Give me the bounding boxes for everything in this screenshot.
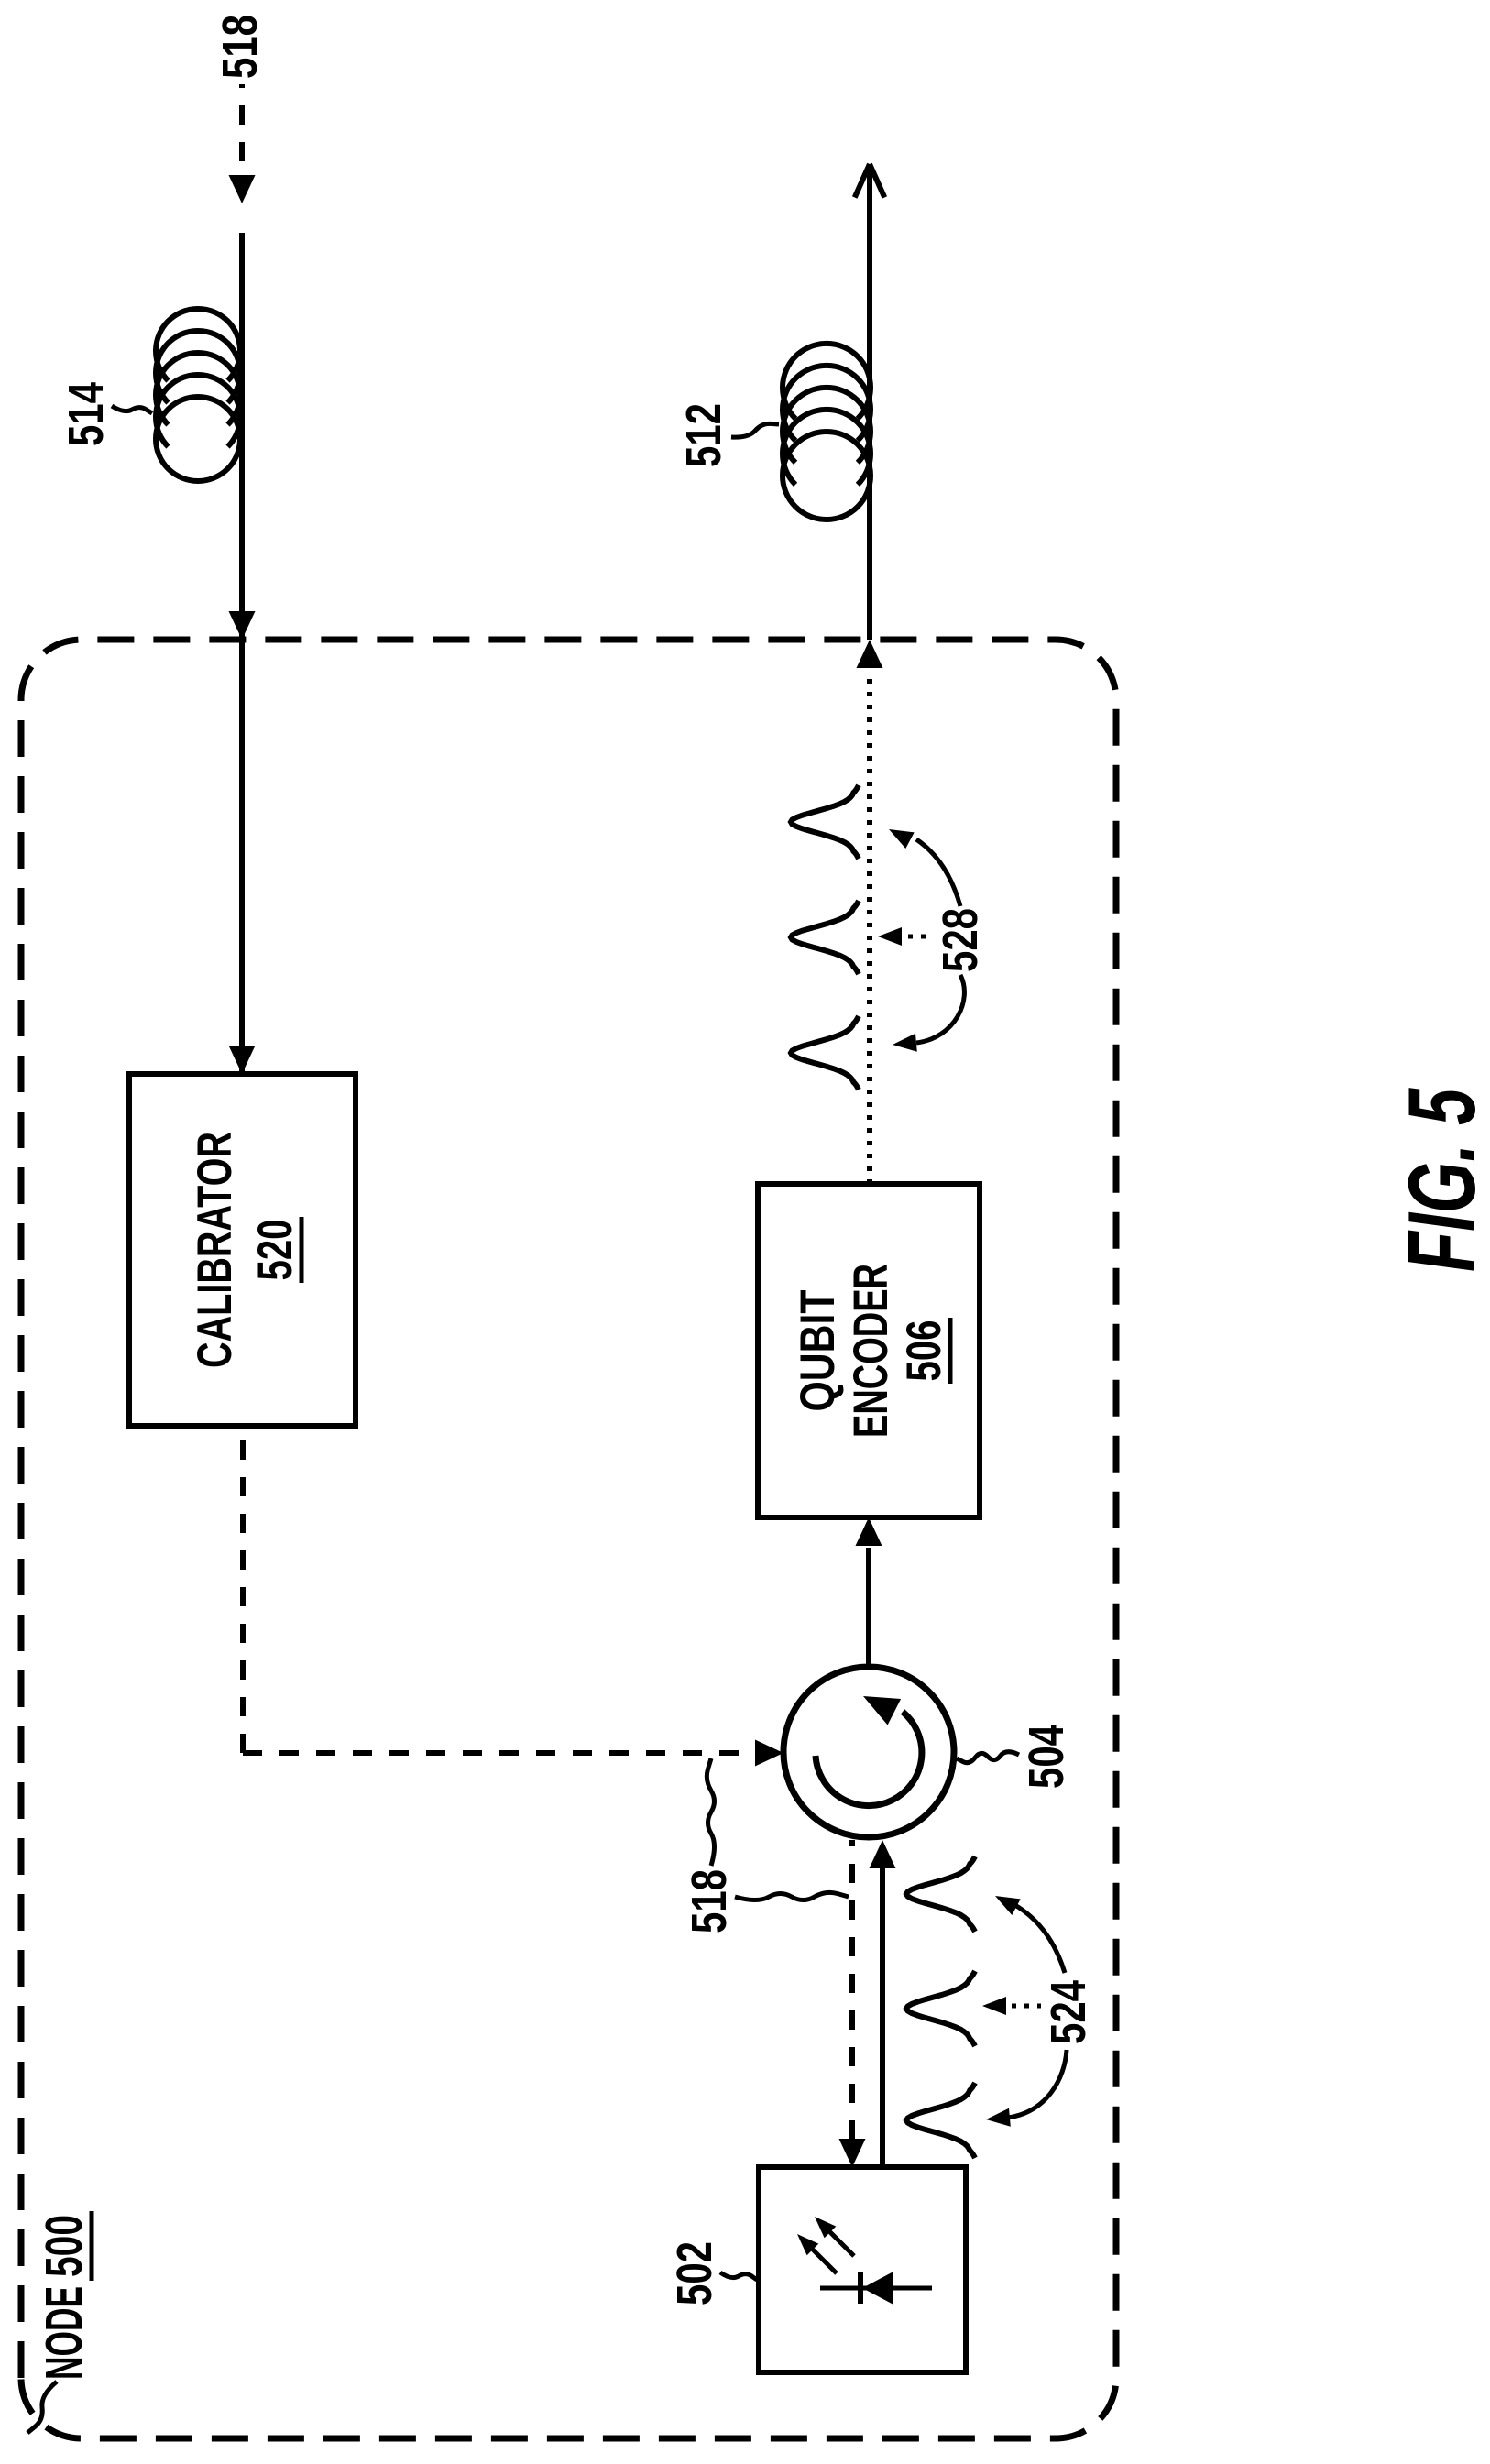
laser diode symbol wire (820, 2286, 932, 2291)
svg-text:506: 506 (897, 1320, 951, 1382)
dashed wire from calibrator to circulator (vertical part) (243, 1750, 755, 1756)
svg-text:ENCODER: ENCODER (844, 1264, 898, 1438)
leader squiggle from 518 to dashed vertical wire (707, 1758, 714, 1866)
leader squiggle for NODE 500 (27, 2382, 57, 2433)
dotted wire qubit encoder to node boundary (867, 675, 872, 1184)
svg-text:FIG. 5: FIG. 5 (1389, 1088, 1490, 1272)
laser emission arrow 2 (823, 2225, 854, 2256)
dotted arrow from 524 to middle pulse (999, 2004, 1041, 2009)
solid wire laser to circulator (880, 1868, 885, 2167)
svg-text:524: 524 (1041, 1980, 1096, 2044)
pulse bell A of 524 (906, 1856, 975, 1932)
fiber coil 514 (156, 397, 240, 481)
arrowhead into circulator left (pointing right) (870, 1840, 896, 1868)
arrowhead into laser box (pointing left) (839, 2139, 866, 2167)
open arrowhead at output end (pointing right) (870, 164, 884, 198)
node 500 dashed boundary box (21, 640, 1116, 2438)
fiber coil 512 (783, 432, 871, 520)
svg-text:518: 518 (682, 1869, 737, 1933)
circulator rotation arc arrow (816, 1712, 922, 1806)
laser emission arrow 1 (805, 2242, 837, 2273)
curved arrow from 524 to left pulse (1008, 2050, 1067, 2118)
curved arrow from 528 to right pulse (916, 839, 960, 906)
qubit encoder text (791, 1264, 951, 1438)
qubit encoder 506 box (758, 1184, 980, 1517)
curved arrow from 524 to right pulse (1013, 1904, 1065, 1973)
circulator 504 circle (783, 1667, 954, 1837)
leader squiggle from 518 to dashed lower wire (735, 1892, 849, 1900)
leader squiggle for 512 (731, 423, 779, 437)
calibrator 520 box (129, 1074, 356, 1426)
svg-text:QUBIT: QUBIT (791, 1290, 845, 1412)
leader squiggle for 504 (957, 1752, 1019, 1763)
pulse bell B of 524 (906, 1971, 975, 2046)
arrowhead at node boundary on output (pointing right) (857, 640, 883, 668)
wire from 518 input through coil 514 to node boundary (239, 233, 245, 1074)
arrowhead into calibrator (pointing left) (229, 1046, 256, 1074)
arrowhead where input wire crosses node boundary (pointing left) (229, 611, 256, 640)
svg-text:502: 502 (667, 2241, 722, 2305)
svg-text:514: 514 (59, 382, 114, 446)
curved arrow from 528 to left pulse (916, 975, 964, 1043)
pulse bell 2 of 528 (791, 901, 859, 974)
svg-text:500: 500 (35, 2215, 93, 2277)
label NODE 500 (35, 2211, 93, 2380)
pulse bell 1 of 528 (791, 785, 859, 859)
calibrator text (188, 1132, 302, 1368)
svg-text:528: 528 (933, 908, 988, 972)
pulse bell 3 of 528 (791, 1016, 859, 1090)
pulse bell C of 524 (906, 2083, 975, 2158)
svg-text:504: 504 (1019, 1725, 1074, 1789)
dashed wire circulator to laser (849, 1840, 855, 2140)
svg-text:512: 512 (676, 403, 731, 467)
svg-text:CALIBRATOR: CALIBRATOR (188, 1132, 242, 1368)
leader squiggle for 514 (112, 406, 152, 413)
wire 518 input dashed segment (outside node) (239, 84, 245, 161)
wire circulator to qubit encoder (866, 1548, 871, 1667)
laser diode cathode bar (858, 2272, 863, 2304)
solid output wire through coil 512 (867, 166, 872, 640)
svg-text:520: 520 (248, 1220, 302, 1281)
arrowhead into qubit encoder (pointing right) (856, 1517, 882, 1546)
arrowhead into circulator top (pointing down) (755, 1740, 783, 1767)
svg-text:NODE: NODE (35, 2286, 93, 2380)
dashed wire from calibrator to circulator (horizontal part) (240, 1426, 246, 1753)
laser 502 box (759, 2167, 966, 2372)
dotted arrow from 528 to middle pulse (895, 935, 934, 939)
arrowhead on 518 input (outside node, pointing left) (229, 175, 256, 203)
laser diode triangle (862, 2272, 893, 2305)
leader squiggle for 502 (720, 2272, 757, 2280)
svg-text:518: 518 (213, 15, 268, 79)
